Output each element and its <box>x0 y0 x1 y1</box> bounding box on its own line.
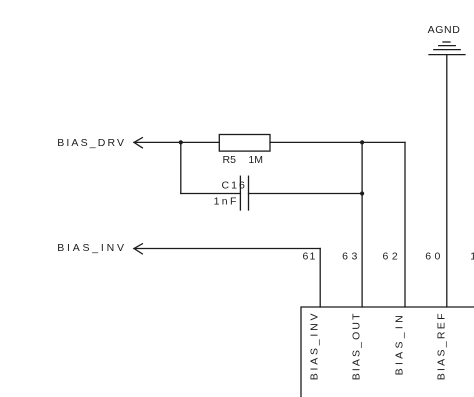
junction C16 / BIAS_OUT wire <box>360 191 364 195</box>
svg-text:BIAS_DRV: BIAS_DRV <box>57 137 124 149</box>
arrow BIAS_DRV <box>134 138 142 148</box>
wire branch down to C16 <box>180 142 182 193</box>
svg-text:BIAS_OUT: BIAS_OUT <box>351 313 363 380</box>
svg-text:C16: C16 <box>222 179 245 191</box>
wire C16 right plate to BIAS_OUT net <box>249 193 363 195</box>
op-amp U? IC body outline <box>301 307 474 397</box>
capacitor C16 <box>240 176 248 210</box>
ground AGND <box>429 42 465 55</box>
svg-text:1M: 1M <box>248 154 263 166</box>
junction R5 output / BIAS_OUT <box>360 140 364 144</box>
junction BIAS_DRV / C16 branch <box>179 140 183 144</box>
wire BIAS_IN down to pin 62 <box>404 142 406 307</box>
wire BIAS_DRV to R5 <box>134 141 219 143</box>
resistor R5 <box>219 135 270 152</box>
wire BIAS_INV horizontal <box>134 248 320 250</box>
wire R5 to corner <box>270 141 405 143</box>
svg-text:AGND: AGND <box>428 24 461 36</box>
svg-text:R5: R5 <box>223 154 237 166</box>
wire AGND to pin 60 <box>446 55 448 307</box>
svg-text:BIAS_REF: BIAS_REF <box>435 314 447 381</box>
wire BIAS_INV down to pin 61 <box>319 249 321 308</box>
wire BIAS_OUT down to pin 63 <box>361 142 363 307</box>
svg-text:1: 1 <box>470 250 474 262</box>
arrow BIAS_INV <box>134 244 142 254</box>
svg-text:1nF: 1nF <box>214 195 237 207</box>
svg-text:61: 61 <box>303 250 316 262</box>
wire to C16 left plate <box>181 193 241 195</box>
